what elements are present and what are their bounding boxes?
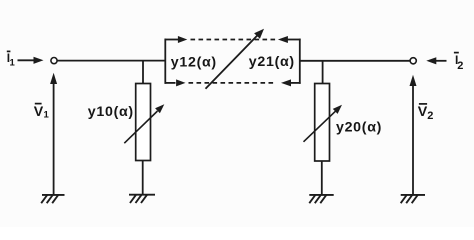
svg-text:2: 2	[427, 110, 434, 122]
svg-text:y12(α): y12(α)	[171, 55, 217, 71]
svg-text:y10(α): y10(α)	[88, 104, 134, 120]
svg-text:y20(α): y20(α)	[336, 119, 382, 135]
svg-text:2: 2	[457, 60, 464, 72]
svg-text:1: 1	[10, 58, 16, 69]
svg-text:y21(α): y21(α)	[249, 54, 295, 70]
svg-text:1: 1	[44, 110, 50, 121]
svg-text:V: V	[34, 104, 44, 120]
